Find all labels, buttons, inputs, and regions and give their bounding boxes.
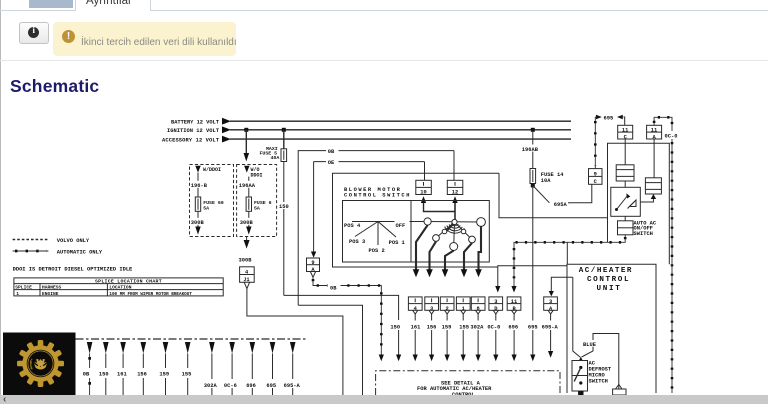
tab Ayrintilar (active) <box>75 0 151 11</box>
wire 695 riser (automatic dotted) with label arrows <box>595 115 624 169</box>
wire from 4/J1 down-right to bottom <box>247 289 343 395</box>
svg-text:196AA: 196AA <box>239 183 256 189</box>
wire OE : to blower connector 10 and down to splice 9/A <box>311 158 425 258</box>
svg-text:150: 150 <box>279 204 289 210</box>
bottom strip wire 695-A <box>284 342 301 395</box>
svg-text:8: 8 <box>477 306 480 312</box>
wire 196AB down to fuse 14 <box>521 130 544 169</box>
svg-text:POS 2: POS 2 <box>369 248 385 254</box>
svg-text:VOLVO ONLY: VOLVO ONLY <box>57 238 90 244</box>
connector 9/A splice <box>307 258 320 277</box>
Schematic heading <box>10 76 99 97</box>
connector 3/A lower <box>544 297 558 314</box>
wire 695A diagonal to splice 9/C <box>533 184 592 208</box>
svg-text:11: 11 <box>622 127 628 133</box>
bottom strip wire 161 <box>117 342 127 395</box>
svg-text:3: 3 <box>430 306 433 312</box>
bottom strip wire 0B (automatic dotted) <box>83 342 93 395</box>
connector row box pin 4 <box>408 297 422 314</box>
svg-text:5A: 5A <box>203 206 209 212</box>
wire up-arrow into connector 12 bottom, down to rotary center <box>452 196 457 220</box>
svg-text:695: 695 <box>528 324 538 330</box>
watermark black box with gear logo <box>3 333 76 396</box>
svg-text:BATTERY 12 VOLT: BATTERY 12 VOLT <box>171 120 220 126</box>
svg-text:UNIT: UNIT <box>597 285 622 293</box>
splice location chart table <box>14 278 223 297</box>
connector row box pin 2 <box>440 297 454 314</box>
svg-text:300B: 300B <box>240 220 254 226</box>
svg-text:POS 1: POS 1 <box>389 240 405 246</box>
svg-text:196AB: 196AB <box>522 147 539 153</box>
svg-text:0C-0: 0C-0 <box>487 324 500 330</box>
blower motor control switch outer box <box>333 173 500 267</box>
wire 0B dotted (automatic) from 9/A to SEE DETAIL A <box>313 277 384 361</box>
unit internal wire down to defrost switch <box>573 277 580 357</box>
svg-text:695: 695 <box>266 383 276 389</box>
svg-text:2: 2 <box>446 306 449 312</box>
junction node on ignition rail feeding W/O DDOI <box>244 128 248 132</box>
arrows below blower box <box>413 269 482 277</box>
terminal block lower right of unit <box>613 385 626 396</box>
fuse FUSE 6 5A <box>246 197 251 211</box>
svg-text:695: 695 <box>604 115 614 121</box>
blower output wires down through box bottom <box>416 225 481 270</box>
relay block under 11/C <box>616 139 634 181</box>
svg-text:3: 3 <box>494 299 497 305</box>
SEE DETAIL A box <box>376 371 560 398</box>
wire from automatic dotted line down to AC/heater unit top <box>566 242 568 264</box>
svg-text:LOCATION: LOCATION <box>109 285 131 291</box>
svg-text:11: 11 <box>511 299 517 305</box>
scrollbar left arrow <box>3 394 6 404</box>
wire from AC/heater unit to connector 3/A with 695-A label <box>549 277 573 296</box>
fuse FUSE 60 5A <box>195 197 200 211</box>
switch position diagram POS4/OFF hub <box>344 222 424 254</box>
connector 4/J1 <box>240 267 255 289</box>
svg-text:0B: 0B <box>330 286 337 292</box>
auto AC on/off switch box <box>611 181 641 216</box>
svg-text:0B: 0B <box>83 372 90 378</box>
svg-text:DDOI IS DETROIT DIESEL OPTIMIZ: DDOI IS DETROIT DIESEL OPTIMIZED IDLE <box>13 266 133 272</box>
svg-text:695-A: 695-A <box>542 324 559 330</box>
svg-text:W/DDOI: W/DDOI <box>203 167 221 173</box>
svg-text:SPLICE LOCATION CHART: SPLICE LOCATION CHART <box>95 279 162 285</box>
svg-text:BLUE: BLUE <box>583 342 597 348</box>
svg-text:SWITCH: SWITCH <box>589 378 608 384</box>
svg-text:300B: 300B <box>191 220 205 226</box>
svg-text:DDOI: DDOI <box>251 173 263 179</box>
svg-text:11: 11 <box>651 127 657 133</box>
tab Ozet (inactive, blue) <box>29 0 73 8</box>
relay block under 11/A <box>640 139 661 202</box>
blower switch inner box with divider <box>343 201 490 263</box>
wires from connector row down to SEE DETAIL A with labels <box>411 314 559 361</box>
svg-text:5A: 5A <box>254 206 260 212</box>
svg-text:155: 155 <box>182 372 192 378</box>
connector 11/A <box>647 125 662 140</box>
connector 11/B <box>507 297 521 314</box>
dashed harness box W/O DDOI <box>237 165 277 237</box>
svg-text:POS 4: POS 4 <box>344 223 361 229</box>
svg-text:156: 156 <box>427 324 437 330</box>
svg-text:AUTOMATIC ONLY: AUTOMATIC ONLY <box>57 250 103 256</box>
AC defrost micro switch <box>572 357 612 396</box>
svg-text:696: 696 <box>246 383 256 389</box>
svg-text:AC/HEATER: AC/HEATER <box>579 267 633 275</box>
connector below auto AC switch <box>618 216 657 237</box>
svg-text:695A: 695A <box>554 202 568 208</box>
power rail ACCESSORY 12 VOLT <box>162 136 571 144</box>
svg-text:196-B: 196-B <box>191 183 208 189</box>
legend AUTOMATIC ONLY <box>13 250 103 256</box>
svg-text:POS 3: POS 3 <box>349 239 365 245</box>
svg-text:SPLICE: SPLICE <box>15 285 32 291</box>
svg-text:9: 9 <box>311 260 314 266</box>
auto AC frame box <box>608 143 670 264</box>
junction node on ignition rail feeding MAXI FUSE <box>282 128 286 132</box>
connector row box pin 1 <box>456 297 470 314</box>
svg-text:3: 3 <box>549 299 552 305</box>
wire to connector 3/D from AC/heater unit <box>495 266 567 293</box>
eagle emblem <box>34 359 47 370</box>
svg-text:OFF: OFF <box>396 223 406 229</box>
junction node 196AB on ignition rail <box>531 128 535 132</box>
wire from blower box corner right and down to auto AC area <box>499 173 608 217</box>
bottom strip wire 155 <box>182 342 192 395</box>
svg-text:10: 10 <box>420 190 426 196</box>
svg-text:OE: OE <box>328 160 335 166</box>
svg-text:1: 1 <box>462 306 465 312</box>
svg-text:IGNITION 12 VOLT: IGNITION 12 VOLT <box>167 128 220 134</box>
wire BLUE <box>582 334 619 389</box>
fuse MAXI FUSE 5 40A <box>260 130 287 162</box>
svg-text:159: 159 <box>159 372 169 378</box>
svg-text:0C-0: 0C-0 <box>665 133 678 139</box>
bottom strip wire 302A <box>204 342 218 395</box>
left page border <box>0 0 1 395</box>
info button <box>19 22 49 44</box>
svg-text:161: 161 <box>117 372 127 378</box>
bottom strip wire 0C-6 <box>224 342 237 395</box>
bottom strip wire 695 <box>266 342 276 395</box>
power rail BATTERY 12 VOLT <box>171 118 571 126</box>
svg-text:CONTROL SWITCH: CONTROL SWITCH <box>344 193 411 199</box>
wire up-arrow into connector 10 bottom, bend to rotary feed <box>421 196 455 211</box>
wire 300B below W/O DDOI to splice connector <box>239 237 253 264</box>
svg-text:159: 159 <box>442 324 452 330</box>
svg-text:FUSE 6: FUSE 6 <box>254 200 272 206</box>
wire 150 : maxi fuse down, corner right, down to SEE DETAIL A <box>278 162 401 362</box>
connector 3/D <box>489 297 503 314</box>
connector row box pin 8 <box>471 297 485 314</box>
svg-text:100 MM FROM WIPER MOTOR BREAKO: 100 MM FROM WIPER MOTOR BREAKOUT <box>109 292 192 297</box>
connector row box pin 3 <box>425 297 439 314</box>
svg-text:9: 9 <box>594 172 597 178</box>
warning alert box <box>53 22 236 56</box>
svg-text:ACCESSORY 12 VOLT: ACCESSORY 12 VOLT <box>162 138 220 144</box>
fuse FUSE 14 10A <box>530 169 564 188</box>
svg-text:1: 1 <box>16 291 19 297</box>
svg-text:HARNESS: HARNESS <box>42 285 62 291</box>
AC/HEATER CONTROL UNIT box <box>567 264 656 393</box>
horizontal scrollbar <box>0 395 768 404</box>
wire 0C-0 dotted from 11/A top to bottom right <box>654 117 679 393</box>
wire 695 from fuse 14 down to SEE DETAIL A <box>530 186 535 362</box>
svg-text:SWITCH: SWITCH <box>634 231 653 237</box>
connector 11/C <box>618 125 633 140</box>
svg-text:ENGINE: ENGINE <box>42 291 59 297</box>
bottom strip wire 159 <box>159 342 169 395</box>
svg-text:CONTROL: CONTROL <box>587 276 630 284</box>
bottom strip wire 696 <box>246 342 256 395</box>
connector 10 <box>416 180 432 195</box>
svg-text:696: 696 <box>508 324 518 330</box>
svg-text:155: 155 <box>459 324 469 330</box>
wire ignition to W/O DDOI box arrow <box>244 130 250 162</box>
svg-text:302A: 302A <box>470 324 484 330</box>
svg-text:FUSE 60: FUSE 60 <box>203 200 224 206</box>
svg-text:10A: 10A <box>541 178 551 184</box>
svg-text:150: 150 <box>390 324 400 330</box>
connector 9/C splice <box>589 169 603 186</box>
legend VOLVO ONLY <box>13 238 90 244</box>
tab bar bottom border <box>0 10 768 11</box>
svg-text:0B: 0B <box>328 149 335 155</box>
svg-text:12: 12 <box>452 190 458 196</box>
wire dotted (automatic) from switch connector to 11/B <box>511 235 625 293</box>
bottom continuation strip line <box>76 338 307 340</box>
bottom strip wire 150 <box>99 342 109 395</box>
svg-text:302A: 302A <box>204 383 218 389</box>
connector 12 <box>447 180 463 195</box>
svg-text:695-A: 695-A <box>284 383 301 389</box>
power rail IGNITION 12 VOLT <box>167 126 571 134</box>
bottom strip wire 156 <box>137 342 147 395</box>
svg-text:40A: 40A <box>271 155 280 161</box>
svg-text:300B: 300B <box>239 258 253 264</box>
svg-text:0C-6: 0C-6 <box>224 383 237 389</box>
separator line <box>0 60 768 61</box>
dashed harness box W/DDOI <box>190 165 234 237</box>
svg-text:156: 156 <box>137 372 147 378</box>
svg-text:150: 150 <box>99 372 109 378</box>
wire 0B lower branch to bottom <box>298 305 362 395</box>
wire 0B upper : corner at left, to blower connector 12 <box>298 147 454 395</box>
rotary switch contacts <box>424 218 485 251</box>
SCHEMATIC_CONTENT <box>3 115 679 398</box>
svg-text:161: 161 <box>411 324 421 330</box>
